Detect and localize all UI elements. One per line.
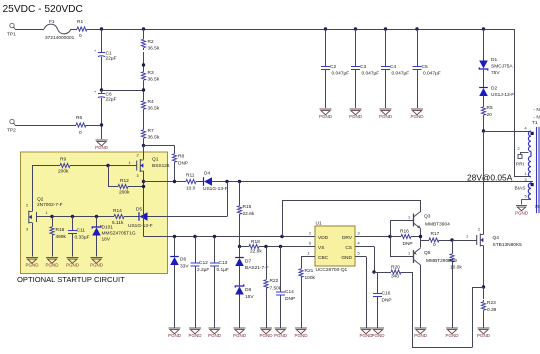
resistor R16 DNP — [399, 236, 401, 238]
svg-text:1: 1 — [129, 161, 131, 165]
svg-text:PRI: PRI — [516, 162, 524, 168]
diode D5 US1G-13-F — [126, 216, 139, 218]
svg-text:10.0: 10.0 — [186, 186, 196, 192]
svg-text:R16: R16 — [56, 227, 65, 233]
fuse F1 37214000001 — [44, 24, 71, 34]
resistor R22 7.50k — [266, 247, 268, 279]
resistor R4 36.5k — [143, 99, 145, 101]
ground PGND C3 — [350, 108, 362, 110]
svg-text:R21: R21 — [305, 268, 314, 274]
node D5 return — [225, 180, 228, 183]
wire F1 to R1 — [71, 29, 75, 31]
svg-text:MMBT3904: MMBT3904 — [425, 222, 450, 228]
ground PGND D6 — [169, 327, 181, 329]
svg-text:0.047µF: 0.047µF — [423, 71, 441, 77]
svg-text:Q1: Q1 — [152, 157, 159, 163]
ground PGND R16 — [46, 257, 58, 259]
svg-text:0.1µF: 0.1µF — [217, 267, 229, 273]
svg-text:PGND: PGND — [90, 263, 104, 268]
capacitor C11 0.33uF — [72, 217, 74, 231]
node C12 — [193, 235, 196, 238]
capacitor C6 22uF — [101, 90, 103, 94]
ground PGND D101 — [91, 257, 103, 259]
node TP2 line — [100, 123, 103, 126]
resistor R15 22.6k — [239, 182, 241, 205]
zener D8 15V — [235, 284, 244, 287]
svg-text:R8: R8 — [178, 154, 184, 160]
svg-text:Q5: Q5 — [424, 250, 431, 256]
ground PGND input — [96, 139, 108, 141]
svg-text:- N: - N — [534, 107, 540, 113]
zener D101 MMSZ4705T1G 18V — [96, 217, 98, 228]
svg-text:BAS21-7-F: BAS21-7-F — [245, 265, 269, 271]
svg-text:0: 0 — [433, 242, 436, 248]
svg-text:7.50k: 7.50k — [270, 286, 282, 292]
svg-text:DNP: DNP — [178, 161, 188, 167]
resistor R1 0 — [75, 29, 77, 31]
svg-text:C5: C5 — [422, 64, 428, 70]
capacitor C4 0.047µF — [385, 29, 387, 67]
svg-text:18V: 18V — [102, 237, 111, 243]
svg-text:R23: R23 — [487, 300, 496, 306]
svg-text:DNP: DNP — [382, 298, 392, 304]
svg-text:R17: R17 — [431, 231, 440, 237]
svg-text:10.0k: 10.0k — [450, 265, 462, 271]
wire TP1 to F1 — [15, 29, 44, 31]
svg-text:22.6k: 22.6k — [243, 211, 255, 217]
node R8 bottom — [173, 180, 176, 183]
svg-text:15V: 15V — [245, 294, 254, 300]
wire bias return — [522, 199, 532, 201]
node gate/R16 — [50, 215, 53, 218]
capacitor C5 0.047µF — [417, 29, 419, 67]
wire startup bottom node — [52, 216, 112, 218]
node DRV — [388, 235, 391, 238]
resistor R14 5.11k — [112, 216, 114, 218]
svg-text:1: 1 — [46, 211, 48, 215]
wire VDD rail — [144, 236, 316, 238]
svg-text:R11: R11 — [186, 173, 195, 179]
svg-text:750: 750 — [535, 204, 540, 210]
wire Q4 drain riser — [483, 131, 485, 235]
svg-text:BSS126: BSS126 — [152, 163, 170, 169]
svg-text:- N: - N — [534, 115, 540, 121]
svg-text:1: 1 — [525, 172, 527, 176]
svg-text:VDD: VDD — [318, 235, 329, 241]
svg-text:PGND: PGND — [349, 114, 363, 119]
ground PGND C14 — [275, 327, 287, 329]
svg-text:R3: R3 — [148, 70, 154, 76]
svg-text:R14: R14 — [113, 208, 122, 214]
wire input rail — [89, 29, 514, 31]
svg-text:100k: 100k — [305, 275, 316, 281]
svg-text:R15: R15 — [243, 204, 252, 210]
ground PGND Q2 — [26, 257, 38, 259]
svg-text:PGND: PGND — [294, 333, 308, 338]
svg-text:R1: R1 — [77, 19, 83, 25]
transistor Q1 BSS126 — [143, 146, 145, 160]
svg-text:D6: D6 — [180, 257, 186, 263]
svg-text:1: 1 — [408, 252, 410, 256]
node emitters/R16 — [419, 235, 422, 238]
ground PGND R23 — [478, 327, 490, 329]
svg-text:2.2µF: 2.2µF — [197, 267, 209, 273]
transistor Q2 2N7002-7-F — [32, 166, 34, 212]
node R15 top — [238, 180, 241, 183]
svg-text:20: 20 — [487, 112, 493, 118]
svg-text:TP1: TP1 — [7, 32, 16, 38]
ground PGND R21 — [295, 327, 307, 329]
ground PGND D8 — [234, 327, 246, 329]
svg-text:D8: D8 — [245, 287, 251, 293]
ground PGND U1 — [360, 327, 372, 329]
svg-text:4: 4 — [358, 242, 360, 246]
node C11 — [71, 215, 74, 218]
resistor R12 200k — [116, 186, 118, 188]
node clamp/switch — [482, 129, 485, 132]
svg-text:4: 4 — [525, 127, 527, 131]
wire CS pin — [355, 246, 374, 248]
test point TP1 — [10, 23, 14, 27]
svg-text:US1J-13-F: US1J-13-F — [491, 92, 514, 98]
svg-text:36.5k: 36.5k — [148, 77, 160, 83]
diode D7 BAS21-7-F — [239, 247, 241, 258]
svg-text:25VDC - 520VDC: 25VDC - 520VDC — [3, 4, 83, 15]
node D6 — [173, 235, 176, 238]
svg-text:R4: R4 — [148, 99, 154, 105]
svg-text:PGND: PGND — [477, 333, 491, 338]
wire gate Q4 — [452, 240, 477, 242]
svg-text:PGND: PGND — [414, 333, 428, 338]
svg-text:C12: C12 — [199, 260, 208, 266]
svg-text:R5: R5 — [487, 105, 493, 111]
svg-text:STB13N80K5: STB13N80K5 — [493, 242, 523, 248]
svg-text:R19: R19 — [448, 258, 457, 264]
svg-text:DNP: DNP — [285, 296, 295, 302]
svg-text:0.39: 0.39 — [487, 307, 497, 313]
svg-text:UCC28700-Q1: UCC28700-Q1 — [316, 267, 348, 273]
node R22 — [264, 245, 267, 248]
node R9 / R12 — [106, 164, 109, 167]
svg-text:F1: F1 — [49, 19, 55, 25]
svg-text:1: 1 — [308, 252, 310, 256]
node R2-R3 — [142, 63, 145, 66]
svg-text:2N7002-7-F: 2N7002-7-F — [37, 202, 63, 208]
wire CBC pin — [301, 256, 315, 258]
svg-text:US1G-13-F: US1G-13-F — [128, 223, 153, 229]
svg-text:C4: C4 — [390, 64, 396, 70]
resistor R6 0 — [74, 125, 76, 127]
resistor R9 200k — [32, 165, 58, 167]
transistor Q3 MMBT3904 — [413, 214, 415, 227]
wire VDD to Q3 collector — [282, 200, 284, 237]
wire Q3 emitter node — [420, 229, 422, 248]
svg-text:MMSZ4705T1G: MMSZ4705T1G — [102, 231, 136, 237]
resistor R23 0.39 — [483, 287, 485, 299]
capacitor C1 22uF — [101, 29, 103, 53]
node input rail / C1 — [100, 27, 103, 30]
resistor R16 499k — [52, 217, 54, 226]
svg-text:GND: GND — [341, 255, 352, 261]
svg-text:PGND: PGND — [319, 114, 333, 119]
svg-text:R6: R6 — [76, 115, 82, 121]
node rail C4 — [384, 27, 387, 30]
svg-text:0.047µF: 0.047µF — [332, 71, 350, 77]
svg-text:36.5k: 36.5k — [148, 135, 160, 141]
svg-text:C2: C2 — [330, 64, 336, 70]
wire R6 to C6 node — [88, 125, 102, 127]
svg-text:2: 2 — [478, 228, 480, 232]
capacitor C13 0.1uF — [214, 237, 216, 264]
svg-text:22µF: 22µF — [106, 97, 117, 103]
ground PGND R22 — [260, 327, 272, 329]
svg-text:PGND: PGND — [25, 263, 39, 268]
svg-text:PGND: PGND — [371, 333, 385, 338]
svg-text:+: + — [94, 49, 97, 53]
node R3-R4 / C link — [142, 88, 145, 91]
svg-text:R9: R9 — [60, 157, 66, 163]
svg-text:1: 1 — [408, 216, 410, 220]
svg-text:US1G-13-F: US1G-13-F — [203, 186, 228, 192]
svg-text:D7: D7 — [245, 259, 251, 265]
ground PGND R19 — [446, 327, 458, 329]
wire DRV to Q3 base — [390, 220, 392, 237]
svg-text:2: 2 — [137, 154, 139, 158]
ground PGND C11 — [67, 257, 79, 259]
wire rail drop to primary pin1 — [514, 29, 516, 177]
resistor R8 DNP — [174, 152, 176, 154]
svg-text:28V@0.05A: 28V@0.05A — [467, 173, 513, 183]
svg-text:PGND: PGND — [208, 333, 222, 338]
svg-text:3: 3 — [525, 178, 527, 182]
svg-text:5: 5 — [525, 195, 527, 199]
resistor R3 36.5k — [143, 70, 145, 72]
svg-text:3: 3 — [358, 232, 360, 236]
svg-text:DRV: DRV — [342, 235, 353, 241]
svg-text:D2: D2 — [491, 86, 497, 92]
svg-text:33V: 33V — [180, 264, 189, 270]
svg-text:36.5k: 36.5k — [148, 106, 160, 112]
svg-text:1: 1 — [466, 235, 468, 239]
capacitor C2 0.047µF — [325, 29, 327, 67]
svg-text:D4: D4 — [204, 171, 210, 177]
svg-text:75V: 75V — [491, 70, 500, 76]
svg-text:R2: R2 — [148, 39, 154, 45]
node VDD-R11 — [142, 180, 145, 183]
node C13 — [213, 235, 216, 238]
diode D4 US1G-13-F — [203, 177, 205, 186]
capacitor C16 DNP — [374, 272, 378, 274]
svg-text:22µF: 22µF — [106, 56, 117, 62]
svg-text:36.5k: 36.5k — [148, 46, 160, 52]
polarity dot primary — [531, 132, 534, 135]
svg-text:+: + — [94, 90, 97, 94]
node rail C2 — [324, 27, 327, 30]
wire DRV to Q5 base — [390, 237, 392, 257]
ground PGND C5 — [411, 108, 423, 110]
resistor R21 100k — [301, 257, 303, 268]
svg-text:6: 6 — [309, 242, 311, 246]
wire D5 riser — [227, 182, 229, 217]
ground PGND C12 — [189, 327, 201, 329]
svg-text:340: 340 — [391, 274, 399, 280]
wire Q4 source — [483, 246, 485, 288]
svg-text:R7: R7 — [148, 128, 154, 134]
svg-text:5: 5 — [358, 252, 360, 256]
wire VS pin stub — [308, 246, 315, 248]
startup circuit region box — [21, 152, 168, 274]
svg-text:Q4: Q4 — [493, 235, 500, 241]
node VDD feed Q3 — [280, 235, 283, 238]
ground PGND C13 — [209, 327, 221, 329]
svg-text:PGND: PGND — [379, 114, 393, 119]
svg-text:R22: R22 — [270, 278, 279, 284]
ground PGND bias — [516, 205, 527, 207]
svg-text:3: 3 — [137, 174, 139, 178]
svg-text:D5: D5 — [136, 207, 142, 213]
wire GND pin — [355, 256, 366, 258]
capacitor C3 0.047µF — [355, 29, 357, 67]
svg-text:200k: 200k — [58, 169, 69, 175]
svg-text:0: 0 — [79, 33, 82, 39]
svg-text:Q3: Q3 — [424, 214, 431, 220]
node source/CS — [482, 285, 485, 288]
svg-text:C14: C14 — [285, 289, 294, 295]
svg-text:C13: C13 — [219, 260, 228, 266]
resistor R7 36.5k — [143, 128, 145, 130]
svg-text:C11: C11 — [77, 228, 86, 234]
svg-text:CS: CS — [345, 245, 352, 251]
transformer T1 bias winding — [528, 183, 531, 199]
svg-text:R18: R18 — [251, 239, 260, 245]
svg-text:Q2: Q2 — [37, 197, 44, 203]
svg-text:PGND: PGND — [259, 333, 273, 338]
svg-text:499k: 499k — [56, 234, 67, 240]
svg-text:0.047µF: 0.047µF — [392, 71, 410, 77]
resistor R18 22.6k — [240, 246, 248, 248]
resistor R11 10.0 — [144, 181, 185, 183]
svg-text:OPTIONAL STARTUP CIRCUIT: OPTIONAL STARTUP CIRCUIT — [17, 275, 125, 284]
node R17/R19/gate — [450, 238, 453, 241]
svg-text:PGND: PGND — [515, 211, 529, 216]
node rail C3 — [354, 27, 357, 30]
ground PGND C4 — [380, 108, 392, 110]
zener D6 33V — [174, 237, 176, 257]
svg-text:PGND: PGND — [45, 263, 59, 268]
svg-text:37214000001: 37214000001 — [45, 35, 75, 41]
svg-text:C3: C3 — [360, 64, 366, 70]
ground PGND C2 — [320, 108, 332, 110]
svg-text:PGND: PGND — [188, 333, 202, 338]
node C1-C6 midpoint — [100, 88, 103, 91]
TVS D1 SMCJ75A 75V — [483, 29, 485, 61]
resistor R20 340 — [374, 272, 389, 274]
resistor R17 0 — [421, 240, 429, 242]
ground PGND C16 — [372, 327, 384, 329]
svg-text:3: 3 — [26, 228, 28, 232]
polarity dot bias — [531, 183, 534, 186]
transistor Q4 STB13N80K5 — [480, 234, 483, 236]
wire Q5 collector — [420, 265, 422, 328]
node C14 — [279, 245, 282, 248]
svg-text:2: 2 — [309, 232, 311, 236]
svg-text:2: 2 — [26, 204, 28, 208]
wire TP2 to R6 — [15, 125, 74, 127]
node divider bottom — [142, 144, 145, 147]
svg-text:PGND: PGND — [233, 333, 247, 338]
svg-text:D1: D1 — [491, 57, 497, 63]
wire CS sense return — [412, 272, 414, 348]
svg-text:TP2: TP2 — [7, 128, 16, 134]
resistor R5 20 — [483, 104, 485, 107]
svg-text:CBC: CBC — [318, 255, 329, 261]
svg-text:U1: U1 — [316, 221, 322, 227]
svg-text:BIAS: BIAS — [515, 186, 526, 192]
wire DRV — [355, 236, 399, 238]
svg-text:PGND: PGND — [95, 145, 109, 150]
wire divider to R8 — [144, 145, 175, 147]
diode D2 US1J-13-F — [483, 69, 485, 88]
node VDD-R12 — [142, 185, 145, 188]
transistor Q5 MMBT2907A — [413, 250, 415, 263]
capacitor C12 2.2uF — [195, 237, 197, 264]
ground PGND Q5 — [415, 327, 427, 329]
svg-text:DNP: DNP — [403, 241, 413, 247]
wire midpoint link to divider — [102, 90, 144, 92]
svg-text:22.6k: 22.6k — [250, 249, 262, 255]
wire switch node to primary — [484, 131, 532, 133]
svg-text:C16: C16 — [382, 291, 391, 297]
resistor R2 36.5k — [143, 29, 145, 37]
svg-text:PGND: PGND — [410, 114, 424, 119]
node D101 — [95, 215, 98, 218]
svg-text:PGND: PGND — [274, 333, 288, 338]
svg-text:0.047µF: 0.047µF — [362, 71, 380, 77]
svg-text:R16: R16 — [400, 229, 409, 235]
node rail C5 — [415, 27, 418, 30]
transformer core — [536, 127, 538, 213]
svg-text:PGND: PGND — [66, 263, 80, 268]
node CS/R20/C16 — [372, 270, 375, 273]
svg-text:0: 0 — [79, 130, 82, 136]
svg-text:200k: 200k — [119, 190, 130, 196]
svg-text:5.11k: 5.11k — [112, 220, 124, 226]
wire R12 branch — [108, 166, 110, 187]
resistor R19 10.0k — [452, 240, 454, 252]
wire Q1 source / VDD vertical — [143, 171, 145, 237]
svg-text:PGND: PGND — [168, 333, 182, 338]
op-amp U1 UCC28700-Q1 — [315, 226, 355, 266]
svg-text:T1: T1 — [532, 120, 538, 126]
transformer T1 primary winding — [528, 131, 531, 151]
svg-text:0.33µF: 0.33µF — [75, 235, 90, 241]
svg-text:R12: R12 — [120, 178, 129, 184]
svg-text:R20: R20 — [391, 265, 400, 271]
capacitor C14 DNP — [280, 247, 282, 293]
test point TP2 — [10, 119, 14, 123]
node VS-R15 — [238, 245, 241, 248]
svg-text:SMCJ75A: SMCJ75A — [491, 64, 513, 70]
svg-text:PGND: PGND — [445, 333, 459, 338]
node divider top — [142, 27, 145, 30]
svg-text:VS: VS — [318, 245, 324, 251]
node rail clamp — [482, 27, 485, 30]
primary tap pin 2 stub — [520, 152, 529, 154]
svg-text:2: 2 — [518, 147, 520, 151]
